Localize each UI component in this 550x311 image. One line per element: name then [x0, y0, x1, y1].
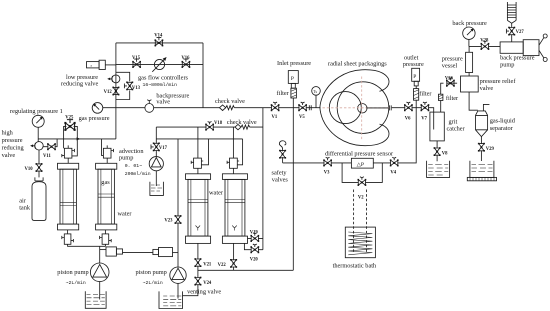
- inlet pressure sensor P: [288, 71, 298, 84]
- svg-text:valve: valve: [2, 152, 16, 159]
- wire: V13 bypass loop: [116, 72, 130, 99]
- gas-liquid separator: [476, 111, 488, 137]
- valve V4: [390, 157, 399, 166]
- wire: relief valve down to separator: [469, 92, 478, 110]
- svg-text:filter: filter: [419, 91, 432, 98]
- valve V20: [250, 244, 259, 253]
- svg-text:pressure relief: pressure relief: [480, 78, 517, 85]
- wire: reducing valve to V10: [38, 150, 40, 177]
- safety valve: [279, 150, 286, 159]
- column C piston cylinder: [186, 174, 211, 180]
- wire: mid branch line A: [156, 126, 263, 128]
- wire: mid branch line B: [156, 138, 242, 140]
- svg-text:valves: valves: [272, 176, 289, 183]
- valve V5: [298, 102, 307, 111]
- svg-text:V7: V7: [421, 117, 427, 122]
- low pressure reducing valve: [112, 75, 120, 83]
- valve V2: [358, 177, 367, 186]
- back pressure pump: [500, 42, 523, 53]
- wire: differential pressure line: [283, 108, 417, 163]
- svg-text:V26: V26: [445, 76, 454, 81]
- valve V15: [132, 59, 141, 68]
- svg-text:200ml/min: 200ml/min: [125, 171, 151, 177]
- outlet pressure sensor P: [412, 68, 420, 81]
- wire: damper 2 to pump 2: [173, 252, 179, 254]
- wire: main line to V1: [234, 107, 271, 109]
- wire: pump 2 suction: [177, 283, 179, 298]
- svg-text:water: water: [209, 190, 224, 197]
- svg-text:water: water: [118, 211, 133, 218]
- wire: dashed lines to thermostatic bath: [354, 190, 367, 253]
- wire: V19 line: [248, 237, 263, 239]
- radial sheet packaging envelope: [320, 70, 389, 146]
- packaging inner circle: [329, 92, 361, 124]
- pulse damper 2: [153, 249, 159, 254]
- svg-text:V12: V12: [104, 90, 113, 95]
- differential pressure sensor: [351, 158, 373, 168]
- column D piston cylinder: [222, 174, 247, 180]
- wire: top loop line: [116, 42, 203, 44]
- svg-text:gas pressure: gas pressure: [79, 115, 110, 122]
- svg-text:P: P: [291, 76, 294, 82]
- svg-text:V20: V20: [250, 257, 259, 262]
- valve V7: [421, 102, 430, 111]
- wire: burette to pump: [511, 23, 513, 42]
- fitting on column D: [230, 158, 238, 168]
- svg-text:back pressure: back pressure: [452, 20, 487, 27]
- svg-text:V13: V13: [132, 86, 141, 91]
- packaging outer circle: [337, 82, 389, 134]
- bottom fitting column 1: [67, 230, 69, 234]
- svg-text:V15: V15: [132, 56, 141, 61]
- svg-text:V18: V18: [214, 121, 223, 126]
- svg-text:venting valve: venting valve: [187, 289, 221, 296]
- thermostatic bath: [345, 227, 375, 258]
- svg-text:pump: pump: [119, 155, 133, 162]
- bottom fitting column 2: [104, 230, 106, 234]
- svg-text:tank: tank: [19, 205, 31, 212]
- valve V17: [151, 143, 160, 152]
- wire: separator to V29: [480, 137, 482, 161]
- wire: fitting D top stub: [232, 127, 234, 158]
- gas supply connector: [87, 62, 100, 68]
- wire: V20 line: [244, 243, 263, 249]
- svg-text:~2L/min: ~2L/min: [66, 280, 86, 286]
- gas pressure gauge: [92, 103, 103, 114]
- wire: drop to fitting C: [201, 139, 208, 165]
- wire: damper link line: [123, 252, 153, 254]
- wire: bottom collector line: [198, 269, 293, 271]
- gas flow controller U1: [154, 59, 164, 69]
- wire: bottom collector to pump 1: [68, 244, 106, 263]
- wire: vertical from main to V20: [262, 108, 264, 250]
- safety valve stub: [282, 157, 284, 163]
- svg-text:V28: V28: [480, 39, 489, 44]
- valve V8: [434, 147, 441, 156]
- regulating pressure gauge: [32, 115, 44, 127]
- valve V24: [194, 277, 201, 286]
- svg-text:filter: filter: [277, 90, 290, 97]
- wire: main line V6 V7: [405, 108, 434, 112]
- packaging crosshair: [323, 77, 390, 142]
- svg-text:reducing valve: reducing valve: [61, 80, 98, 87]
- wire: relief valve to vessel: [468, 73, 470, 77]
- piston pump 1: [90, 263, 109, 282]
- svg-text:△P: △P: [357, 162, 364, 168]
- inlet filter: [291, 88, 297, 98]
- advection pump: [149, 157, 163, 171]
- high pressure reducing valve: [35, 142, 43, 150]
- fitting on column C: [194, 158, 202, 168]
- wire: outlet sensor stem: [415, 86, 417, 108]
- valve V22: [230, 259, 237, 268]
- wire: V5 to packaging inlet with union ticks: [306, 105, 320, 110]
- check valve 2: [235, 124, 250, 129]
- valve V19: [250, 233, 259, 242]
- wire: V2 bypass loop: [342, 163, 382, 183]
- valve V21: [194, 258, 201, 267]
- svg-text:0. 01~: 0. 01~: [125, 163, 142, 169]
- svg-text:V16: V16: [181, 56, 190, 61]
- svg-text:V4: V4: [390, 170, 396, 175]
- svg-text:~2L/min: ~2L/min: [143, 280, 163, 286]
- wire: gas flow controller line: [116, 63, 203, 65]
- svg-text:grit: grit: [449, 118, 458, 125]
- temperature sensor Ts: [312, 87, 321, 96]
- check valve 1: [220, 105, 235, 111]
- svg-text:differential pressure sensor: differential pressure sensor: [325, 150, 394, 157]
- svg-text:valve: valve: [156, 99, 170, 106]
- wire: main line to check valve: [154, 107, 220, 109]
- outlet filter: [414, 89, 419, 101]
- valve V6: [404, 102, 413, 111]
- valve V14: [155, 38, 164, 47]
- svg-text:V1: V1: [272, 115, 278, 120]
- wire: left vertical of controller loop: [115, 43, 117, 139]
- wire: main line left section: [103, 107, 145, 109]
- packaging center port: [358, 104, 367, 113]
- advection pump beaker: [150, 182, 164, 196]
- filter 3: [439, 94, 443, 100]
- grit catcher beaker: [427, 161, 450, 178]
- wire: manifold line y139: [38, 138, 116, 140]
- valve V12: [112, 87, 119, 96]
- wire: V23 drop line to piston pump 2: [177, 139, 179, 267]
- column 1 piston cylinder: [58, 163, 79, 169]
- wire: grit catcher to filter3 riser: [441, 83, 457, 112]
- svg-text:regulating pressure 1: regulating pressure 1: [10, 108, 63, 115]
- pressure relief valve: [461, 76, 479, 92]
- svg-text:V24: V24: [203, 281, 212, 286]
- pulse damper 1: [100, 249, 106, 251]
- svg-text:valve: valve: [480, 85, 494, 92]
- wire: gauge stem to manifold: [37, 127, 39, 141]
- svg-text:filter: filter: [446, 95, 459, 102]
- valve V18: [205, 121, 214, 130]
- valve V10: [36, 163, 43, 172]
- svg-text:piston pump: piston pump: [57, 269, 88, 276]
- svg-text:catcher: catcher: [447, 126, 466, 133]
- svg-text:V8: V8: [442, 151, 448, 156]
- wire: packaging outlet with union ticks: [366, 105, 405, 110]
- valve V1: [271, 102, 280, 111]
- svg-text:V23: V23: [164, 219, 173, 224]
- wire: column D bottom stem V22: [233, 243, 235, 270]
- wire: V25 loop: [64, 126, 78, 155]
- separator beaker base: [467, 177, 496, 180]
- svg-text:V21: V21: [203, 262, 212, 267]
- valve V23: [175, 215, 182, 224]
- svg-text:thermostatic bath: thermostatic bath: [333, 263, 377, 270]
- backpressure valve: [145, 104, 154, 113]
- wire: advection pump suction: [155, 171, 157, 186]
- burette: [507, 2, 516, 23]
- water reservoir 1: [85, 291, 106, 308]
- svg-text:V27: V27: [516, 30, 525, 35]
- wire: tap line down to V22 loop: [292, 163, 294, 270]
- wire: drop to fitting 2: [102, 139, 104, 156]
- svg-text:Ts: Ts: [313, 89, 317, 94]
- wire: V25 left leg to fitting 1: [63, 139, 65, 148]
- wire: V11 loop: [43, 139, 57, 147]
- svg-text:V10: V10: [25, 167, 34, 172]
- svg-text:check valve: check valve: [227, 119, 257, 126]
- svg-text:pump: pump: [500, 61, 514, 68]
- svg-text:V29: V29: [486, 147, 495, 152]
- wire: vessel to back pressure line: [469, 46, 500, 52]
- valve V13: [124, 82, 133, 91]
- svg-text:pressure: pressure: [403, 61, 424, 68]
- valve V3: [323, 157, 332, 166]
- svg-text:piston pump: piston pump: [136, 269, 167, 276]
- svg-text:V17: V17: [159, 146, 168, 151]
- svg-text:air: air: [19, 197, 27, 204]
- pressure vessel: [466, 52, 473, 72]
- wire: main line V1 to V5: [279, 107, 299, 109]
- wire: pump 1 suction: [99, 282, 101, 300]
- flow arrow on manifold: [77, 137, 81, 140]
- fitting on column 1: [64, 148, 72, 158]
- svg-text:V22: V22: [218, 263, 227, 268]
- wire: inlet sensor stem and dP left tap: [292, 98, 294, 163]
- fitting on column 2: [103, 148, 111, 158]
- piston pump 2: [170, 267, 186, 283]
- svg-text:gas flow controllers: gas flow controllers: [138, 74, 189, 81]
- svg-text:high: high: [2, 130, 14, 137]
- svg-text:pressure: pressure: [2, 137, 23, 144]
- svg-text:V3: V3: [324, 170, 330, 175]
- wire: grit catcher drain: [436, 141, 438, 161]
- svg-text:V11: V11: [43, 154, 51, 159]
- svg-text:V19: V19: [250, 231, 259, 236]
- valve V11: [47, 143, 56, 150]
- grit catcher: [430, 112, 444, 141]
- valve V27: [506, 27, 515, 36]
- svg-text:P: P: [413, 74, 416, 80]
- wire: V17 riser: [155, 127, 157, 157]
- column 2 piston cylinder: [96, 163, 117, 169]
- svg-text:gas-liquid: gas-liquid: [490, 118, 516, 125]
- svg-text:V6: V6: [405, 117, 411, 122]
- valve V26: [446, 78, 455, 87]
- wire: column C bottom stem V21 V24: [183, 243, 198, 295]
- svg-text:gas: gas: [101, 179, 110, 186]
- valve V25: [64, 120, 75, 131]
- water reservoir 2: [159, 291, 183, 308]
- svg-text:V5: V5: [299, 115, 305, 120]
- svg-text:V2: V2: [358, 195, 364, 200]
- wire: drop to fitting D: [237, 139, 242, 165]
- valve V29: [478, 143, 485, 152]
- svg-text:Inlet pressure: Inlet pressure: [277, 60, 311, 67]
- svg-text:check valve: check valve: [215, 98, 245, 105]
- wire: supply to vertical: [105, 64, 116, 66]
- svg-text:separator: separator: [490, 125, 514, 132]
- svg-text:vessel: vessel: [442, 62, 458, 69]
- svg-text:V14: V14: [154, 34, 163, 39]
- back pressure gauge: [468, 40, 470, 47]
- valve V16: [182, 59, 191, 68]
- svg-text:reducing: reducing: [2, 144, 25, 151]
- svg-text:radial sheet packagings: radial sheet packagings: [328, 60, 387, 67]
- svg-text:16~800ml/min: 16~800ml/min: [143, 82, 178, 88]
- valve V28: [481, 41, 490, 50]
- wire: fitting C top stub: [197, 127, 199, 158]
- air tank: [35, 177, 43, 181]
- separator beaker: [470, 161, 494, 178]
- wire: right vertical of controller loop: [202, 43, 204, 108]
